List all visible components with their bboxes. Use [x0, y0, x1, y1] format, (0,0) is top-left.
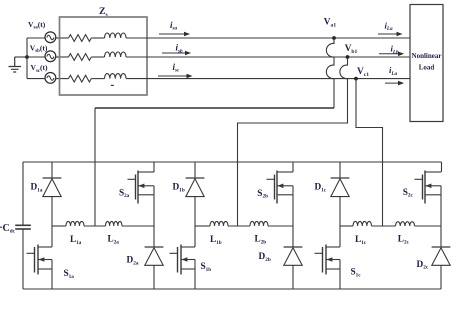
- dash mark under phase-c inductor: [111, 84, 114, 86]
- wire Lsa to box edge: [126, 37, 147, 39]
- wire source Vsa to Zs box: [56, 37, 69, 39]
- wire Rsa to Lsa: [91, 37, 104, 39]
- current arrow isb: [162, 52, 190, 54]
- MOSFET S1c: [315, 226, 341, 289]
- wire mid row centre: [228, 225, 250, 227]
- wire top dc rail: [23, 161, 442, 163]
- current arrow isc: [158, 75, 192, 77]
- wire mid row left L1c: [340, 225, 353, 227]
- voltage source Vsb(t): [45, 51, 56, 62]
- wire line phase c to load: [147, 78, 410, 80]
- resistor Rsb: [69, 54, 92, 61]
- wire left dc rail: [22, 162, 24, 289]
- MOSFET S1a: [27, 226, 53, 289]
- diode D1a: [43, 162, 62, 226]
- diode D2b: [284, 247, 303, 289]
- wire Rsc to Lsc: [91, 78, 104, 80]
- wire Lsc to box edge: [126, 78, 147, 80]
- resistor Rsa: [69, 35, 92, 42]
- inductor L2c: [396, 222, 415, 226]
- capacitor Cdc: [15, 224, 31, 226]
- wire mid row centre: [372, 225, 396, 227]
- node Vc1: [354, 77, 358, 81]
- node neutral junction: [25, 55, 29, 59]
- wire mid row right: [268, 225, 293, 227]
- wire Lsb to box edge: [126, 56, 147, 58]
- inductor L1c: [353, 221, 371, 226]
- wire source Vsc to Zs box: [56, 78, 69, 80]
- wire bus to source Vsc: [27, 78, 45, 80]
- wire mid row right: [415, 225, 442, 227]
- wire mid row right: [122, 225, 154, 227]
- inductor L1a: [66, 221, 84, 226]
- wire bus to source Vsb: [27, 56, 45, 58]
- inductor Lsc: [105, 74, 127, 79]
- voltage source Vsc(t): [45, 73, 56, 84]
- inductor Lsa: [105, 33, 127, 38]
- wire mid row left L1b: [195, 225, 210, 227]
- label Cdc: [0, 226, 2, 228]
- diode D1c: [331, 162, 350, 226]
- wire Vb1 drop to phase-b midpoint: [238, 57, 348, 226]
- wire ground to neutral bus: [15, 56, 27, 58]
- current arrow isa: [159, 33, 189, 35]
- current arrow iLb: [379, 53, 403, 55]
- inductor L1b: [210, 221, 228, 226]
- MOSFET S2a: [128, 162, 155, 247]
- inductor L2a: [106, 221, 122, 226]
- node Vb1: [346, 55, 350, 59]
- wire source Vsb to Zs box: [56, 56, 69, 58]
- wire Rsb to Lsb: [91, 56, 104, 58]
- wire bus to source Vsa: [27, 37, 45, 39]
- current arrow iLa: [378, 33, 402, 35]
- current arrow iLc: [385, 82, 403, 84]
- svg-text:Load: Load: [419, 64, 435, 72]
- inductor L2b: [250, 221, 268, 226]
- resistor Rsc: [69, 75, 92, 82]
- nonlinear load box: [410, 5, 443, 122]
- MOSFET S1b: [170, 226, 196, 289]
- wire mid row centre: [84, 225, 106, 227]
- wire mid row left L1a: [52, 225, 66, 227]
- wire neutral bus: [26, 38, 28, 79]
- wire line phase a to load: [147, 37, 410, 39]
- impedance box Zs: [60, 17, 148, 95]
- wire bottom dc rail: [23, 288, 441, 290]
- wire Vc1 drop to phase-c midpoint: [356, 79, 383, 226]
- wire Va1 drop to phase-a midpoint: [326, 38, 334, 108]
- MOSFET S2c: [415, 162, 442, 247]
- voltage source Vsa(t): [45, 32, 56, 43]
- node Va1: [332, 36, 336, 40]
- ground: [9, 57, 22, 72]
- svg-text:Nonlinear: Nonlinear: [412, 52, 442, 60]
- wire line phase b to load: [147, 56, 410, 58]
- diode D2c: [432, 247, 451, 289]
- MOSFET S2b: [267, 162, 294, 247]
- diode D1b: [186, 162, 205, 226]
- diode D2a: [145, 247, 164, 289]
- inductor Lsb: [105, 52, 127, 57]
